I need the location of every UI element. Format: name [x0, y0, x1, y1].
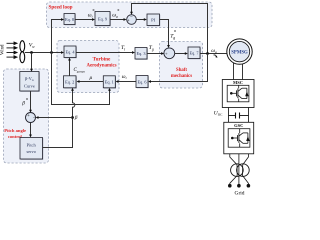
rotation arrow: [214, 55, 218, 58]
converter GSC: [224, 122, 254, 154]
junction wg: [206, 52, 209, 55]
block Eq.8: [64, 14, 76, 26]
wire Tg (Eq.3 to shaft sum): [147, 52, 164, 55]
three phase wire left: [230, 154, 237, 185]
svg-text:Eq. 4: Eq. 4: [65, 50, 75, 55]
wind turbine rotor: [20, 41, 25, 63]
wire wg feedback to speed sum: [130, 4, 207, 54]
svg-text:Eq. 7: Eq. 7: [189, 51, 199, 56]
three phase wire middle: [238, 154, 240, 185]
svg-text:Eq. 3: Eq. 3: [136, 51, 145, 56]
shaft mechanics label: [171, 68, 192, 79]
svg-text:Speed loop: Speed loop: [49, 5, 73, 11]
transformer: [231, 164, 250, 177]
svg-text:μ: μ: [90, 75, 93, 81]
svg-text:servo: servo: [26, 149, 36, 154]
wire Vw down to curve: [30, 53, 33, 72]
svg-text:β: β: [21, 100, 25, 106]
svg-text:PI: PI: [151, 17, 156, 22]
wire wg to SPMSG: [200, 53, 227, 55]
wind arrows: [7, 42, 18, 58]
turbine aerodynamics label: [86, 56, 116, 68]
wire Cp,max (Eq.2 up to Eq.4): [68, 58, 71, 76]
turbine aerodynamics region box: [57, 41, 119, 93]
wire pitch sum to servo: [29, 123, 32, 138]
wire speed sum to PI: [136, 18, 147, 21]
wire PI to shaft sum (Tg*): [160, 20, 170, 49]
dc link wire right: [248, 108, 250, 123]
block Eq.3: [135, 48, 148, 60]
junction Vw to speed loop: [50, 51, 53, 54]
svg-text:Eq. 8: Eq. 8: [65, 17, 74, 22]
svg-text:Pitch angle: Pitch angle: [4, 128, 26, 133]
wire curve to pitch sum (beta*): [29, 91, 32, 113]
wire Eq9 to speed sum: [110, 18, 127, 21]
converter MSC: [222, 80, 254, 108]
summing junction speed loop: [127, 15, 137, 25]
svg-text:Eq. 6: Eq. 6: [137, 79, 147, 84]
three phase wire right: [243, 154, 249, 185]
block Eq.6: [136, 76, 149, 89]
dc link wire left: [228, 108, 230, 123]
wire mu (Eq.1 to Eq.2): [77, 80, 104, 83]
block pitch servo: [20, 138, 43, 160]
pitch angle control label: [4, 128, 26, 139]
svg-text:−: −: [33, 117, 36, 122]
pitch angle control region box: [4, 69, 49, 163]
block Eq.1: [103, 76, 116, 89]
grid connection dots: [228, 184, 250, 188]
wire Vw up to speed loop Eq.8: [52, 18, 65, 52]
summing junction shaft: [164, 48, 175, 59]
wire beta up to Eq.2 (with hop): [43, 88, 75, 148]
shaft mechanics region box: [160, 42, 203, 89]
svg-text:Grid: Grid: [235, 190, 245, 196]
svg-text:Turbine: Turbine: [93, 56, 111, 62]
svg-text:MSC: MSC: [233, 80, 243, 85]
block Eq.9: [95, 12, 111, 27]
svg-text:Eq. 9: Eq. 9: [98, 17, 107, 22]
svg-text:Curve: Curve: [24, 84, 35, 89]
junction Vw to pitch curve: [30, 51, 33, 54]
wire Vw down to Eq.1 bottom: [52, 53, 111, 105]
svg-text:Aerodynamics: Aerodynamics: [86, 64, 116, 69]
wire Vw main: [25, 51, 64, 54]
wire wg down to Eq.6: [148, 54, 208, 83]
wire shaft sum to Eq.7: [175, 52, 188, 55]
svg-text:+: +: [165, 52, 168, 57]
wire Tt (Eq.4 to Eq.3): [76, 51, 135, 54]
block Eq.2: [64, 76, 77, 89]
svg-text:Eq. 1: Eq. 1: [105, 80, 114, 85]
dc link capacitor: [229, 113, 249, 119]
svg-text:SPMSG: SPMSG: [231, 51, 248, 56]
block Eq.4: [64, 46, 77, 58]
wire SPMSG to MSC right: [242, 64, 244, 80]
wire wt (Eq.6 to Eq.1): [116, 80, 137, 83]
block beta-Vw curve: [20, 72, 40, 92]
wire Eq8 to Eq9: [75, 18, 95, 21]
block Eq.7: [188, 47, 201, 59]
svg-text:Eq. 2: Eq. 2: [65, 80, 74, 85]
svg-text:β: β: [74, 115, 78, 121]
svg-text:mechanics: mechanics: [171, 74, 192, 79]
wire beta feedback to pitch sum: [36, 116, 73, 119]
block PI: [147, 14, 160, 26]
summing junction pitch: [26, 113, 36, 123]
svg-text:Pitch: Pitch: [27, 142, 37, 147]
generator SPMSG: [227, 39, 252, 64]
junction beta: [71, 116, 74, 119]
svg-text:GSC: GSC: [234, 123, 243, 128]
svg-text:Wind: Wind: [1, 44, 6, 55]
wire SPMSG to MSC left: [233, 63, 235, 80]
svg-text:−: −: [130, 15, 133, 20]
svg-text:Shaft: Shaft: [176, 68, 187, 73]
speed loop region box: [47, 2, 213, 28]
svg-text:+: +: [27, 114, 30, 119]
